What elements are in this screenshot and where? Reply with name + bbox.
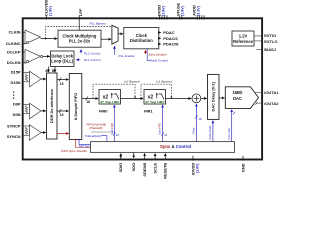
svg-text:PDAC/2: PDAC/2 — [163, 36, 178, 41]
pin AVDD — [192, 5, 204, 20]
svg-text:16Bit: 16Bit — [232, 90, 243, 95]
svg-text:Sync & Control: Sync & Control — [160, 144, 191, 149]
node PDAC/2 — [159, 37, 161, 39]
PLL block — [58, 30, 101, 47]
wire CLK buffer to PLL with junction — [41, 38, 58, 40]
svg-text:Gain: Gain — [158, 129, 162, 135]
svg-text:Distribution: Distribution — [130, 38, 153, 43]
DLL block — [51, 51, 75, 67]
svg-text:EXTLO: EXTLO — [264, 39, 277, 44]
svg-text:SDENB: SDENB — [142, 163, 147, 177]
svg-text:PLL Enable: PLL Enable — [119, 54, 135, 58]
svg-text:Offset: Offset — [192, 127, 196, 134]
svg-text:IOUTA2: IOUTA2 — [264, 101, 279, 106]
pin IOUTA2 — [254, 102, 256, 104]
svg-text:DLL Control: DLL Control — [84, 58, 101, 62]
svg-text:DAC Gain: DAC Gain — [227, 127, 231, 139]
svg-text:(1.8V): (1.8V) — [162, 5, 166, 16]
svg-text:FIFO Sync Disable: FIFO Sync Disable — [61, 149, 87, 153]
svg-text:(x2 Bypass): (x2 Bypass) — [124, 80, 140, 84]
svg-text:16: 16 — [60, 113, 64, 117]
Sync & Control block — [91, 142, 235, 153]
pin SCLK — [153, 153, 158, 173]
pin EXTLO — [254, 40, 262, 42]
8-Sample FIFO block — [69, 74, 82, 140]
PLL Enable annotation — [114, 46, 116, 55]
pin VFUSE — [176, 3, 185, 20]
svg-text:D15P: D15P — [11, 70, 21, 75]
x2 bypass dashed path — [93, 84, 135, 98]
DAC Delay block — [208, 74, 220, 119]
svg-text:(1.8V): (1.8V) — [181, 5, 185, 16]
svg-text:8-Sample FIFO: 8-Sample FIFO — [73, 93, 78, 120]
svg-text:EXTIO: EXTIO — [264, 33, 276, 38]
svg-text:D15N: D15N — [10, 80, 20, 85]
svg-text:(3.3V): (3.3V) — [197, 5, 201, 16]
svg-text:SYNCN: SYNCN — [7, 134, 21, 139]
x1 bypass dashed path — [141, 84, 172, 98]
svg-text:PDAC: PDAC — [163, 30, 174, 35]
svg-text:DAC Delay [0-3]: DAC Delay [0-3] — [211, 82, 216, 112]
svg-text:Clock Multiplying: Clock Multiplying — [63, 33, 97, 38]
svg-text:FIR0: FIR0 — [110, 122, 114, 128]
D0 LVDS receiver with termination — [23, 103, 41, 119]
svg-text:SYNCP: SYNCP — [7, 124, 21, 129]
svg-text:PDAC/N: PDAC/N — [163, 42, 178, 47]
svg-text:16: 16 — [86, 100, 90, 104]
svg-text:FIR1: FIR1 — [144, 108, 153, 113]
svg-text:DAC: DAC — [233, 96, 242, 101]
control line DAC gain — [227, 110, 235, 142]
wire D15 receiver to DDR — [41, 78, 46, 80]
svg-text:LPF: LPF — [78, 8, 83, 16]
svg-text:16: 16 — [198, 117, 202, 121]
SYNC LVDS receiver with termination — [23, 125, 41, 141]
svg-text:SDO: SDO — [131, 163, 136, 172]
svg-text:FIR0: FIR0 — [99, 108, 108, 113]
svg-text:D0P: D0P — [13, 102, 21, 107]
svg-text:DCLKP: DCLKP — [7, 50, 21, 55]
pin IOVDD — [190, 156, 199, 175]
svg-text:(1.8V): (1.8V) — [196, 164, 200, 173]
wire FIR1 to summer — [166, 98, 192, 100]
pin RESETB — [163, 153, 168, 178]
clock mux — [112, 25, 118, 44]
summer node — [192, 94, 201, 103]
Clock Distribution block — [124, 28, 159, 49]
PLL control annotation — [80, 50, 82, 54]
clock input buffer U1 (CLKIN/CLKINC) — [24, 30, 41, 44]
svg-text:47 Tap HBF: 47 Tap HBF — [145, 100, 165, 104]
svg-text:Mode Control: Mode Control — [149, 58, 168, 62]
wire DAC delay to DAC — [219, 97, 225, 99]
svg-text:(x1 Bypass): (x1 Bypass) — [156, 80, 172, 84]
svg-text:RESETB: RESETB — [163, 163, 168, 179]
svg-text:16: 16 — [116, 133, 120, 137]
pin LPF — [78, 8, 83, 20]
svg-text:47 Tap HBF: 47 Tap HBF — [100, 100, 120, 104]
red fifo sync wire DDR to FIFO — [57, 133, 69, 135]
PLL bypass dashed path — [46, 27, 112, 39]
Mode Control annotation — [147, 49, 149, 61]
svg-text:CLKIN: CLKIN — [9, 30, 21, 35]
pin EXTIO — [254, 35, 262, 37]
svg-text:SDIO: SDIO — [118, 163, 123, 173]
pin DVDD — [157, 5, 167, 20]
FIR1 block — [144, 90, 166, 105]
svg-text:1.2V: 1.2V — [239, 34, 248, 39]
svg-text:16: 16 — [164, 133, 168, 137]
svg-text:16: 16 — [60, 82, 64, 86]
chip outline — [23, 18, 262, 159]
svg-text:Delay Mode: Delay Mode — [208, 125, 212, 139]
wire SYNC receiver to DDR — [41, 132, 46, 134]
svg-text:(Handoff): (Handoff) — [90, 126, 103, 130]
control line DAC delay — [208, 121, 213, 142]
control line offset to summer — [192, 104, 202, 142]
control line FIR0 — [110, 105, 120, 142]
svg-text:PLL Control: PLL Control — [84, 51, 101, 55]
svg-text:GND: GND — [240, 163, 245, 172]
SW Sync annotation — [79, 140, 90, 145]
bus FIFO to FIR0 — [82, 98, 98, 100]
pin SDIO — [118, 153, 123, 172]
16-bit DAC — [225, 87, 258, 109]
wire LPF to PLL — [78, 20, 80, 31]
ellipsis dots between D15N and D0P — [13, 92, 14, 99]
DLL control annotation — [76, 59, 80, 61]
node PDAC — [159, 32, 161, 34]
node PDAC/N — [159, 43, 161, 45]
1.2V Reference block — [232, 31, 254, 46]
svg-text:Reference: Reference — [233, 39, 254, 44]
FIFO Sync Disable annotation — [76, 140, 90, 148]
wire D0 receiver to DDR — [41, 110, 46, 112]
svg-text:TxEnable(1): TxEnable(1) — [85, 134, 102, 138]
svg-text:FIR1: FIR1 — [158, 122, 162, 128]
wire summer to DAC delay — [201, 97, 207, 99]
wire DCLK buffer to DLL — [43, 55, 50, 57]
svg-text:DCLKN: DCLKN — [7, 60, 21, 65]
svg-text:Loop (DLL): Loop (DLL) — [51, 59, 73, 64]
wire FIR0 to FIR1 — [121, 98, 144, 100]
svg-text:CLKINC: CLKINC — [6, 41, 21, 46]
pin CLKVDD — [44, 0, 53, 20]
wire mux to clock distribution — [118, 33, 123, 35]
svg-text:BIASJ: BIASJ — [264, 47, 276, 52]
pin BIASJ — [257, 48, 262, 50]
svg-text:(1.8V): (1.8V) — [49, 5, 53, 16]
wire PLL to mux — [101, 38, 111, 40]
D15 LVDS receiver with termination — [23, 71, 41, 87]
svg-text:Sync Disable: Sync Disable — [149, 53, 167, 57]
DDR De-Interleave block — [47, 73, 58, 139]
svg-text:PLL 2x-32x: PLL 2x-32x — [69, 39, 91, 44]
svg-text:IOUTA1: IOUTA1 — [264, 90, 279, 95]
Sync Disable annotation — [145, 50, 147, 54]
node B — [54, 67, 56, 73]
DCLK input buffer (DCLKP/DCLKN) — [24, 49, 43, 63]
svg-text:DDR De-Interleave: DDR De-Interleave — [49, 88, 54, 123]
pin SDO — [131, 153, 136, 172]
pin GND — [240, 156, 245, 172]
pin SDENB — [142, 153, 147, 176]
bus DDR to FIFO upper — [57, 79, 69, 81]
svg-text:PLL Bypass: PLL Bypass — [90, 22, 107, 26]
svg-text:SCLK: SCLK — [153, 163, 158, 174]
FIR0 block — [99, 90, 121, 105]
control line FIR1 — [158, 105, 168, 142]
node A — [48, 67, 50, 73]
pin IOUTA1 — [255, 91, 262, 93]
bus DDR to FIFO lower — [57, 110, 69, 112]
svg-text:D0N: D0N — [13, 112, 21, 117]
